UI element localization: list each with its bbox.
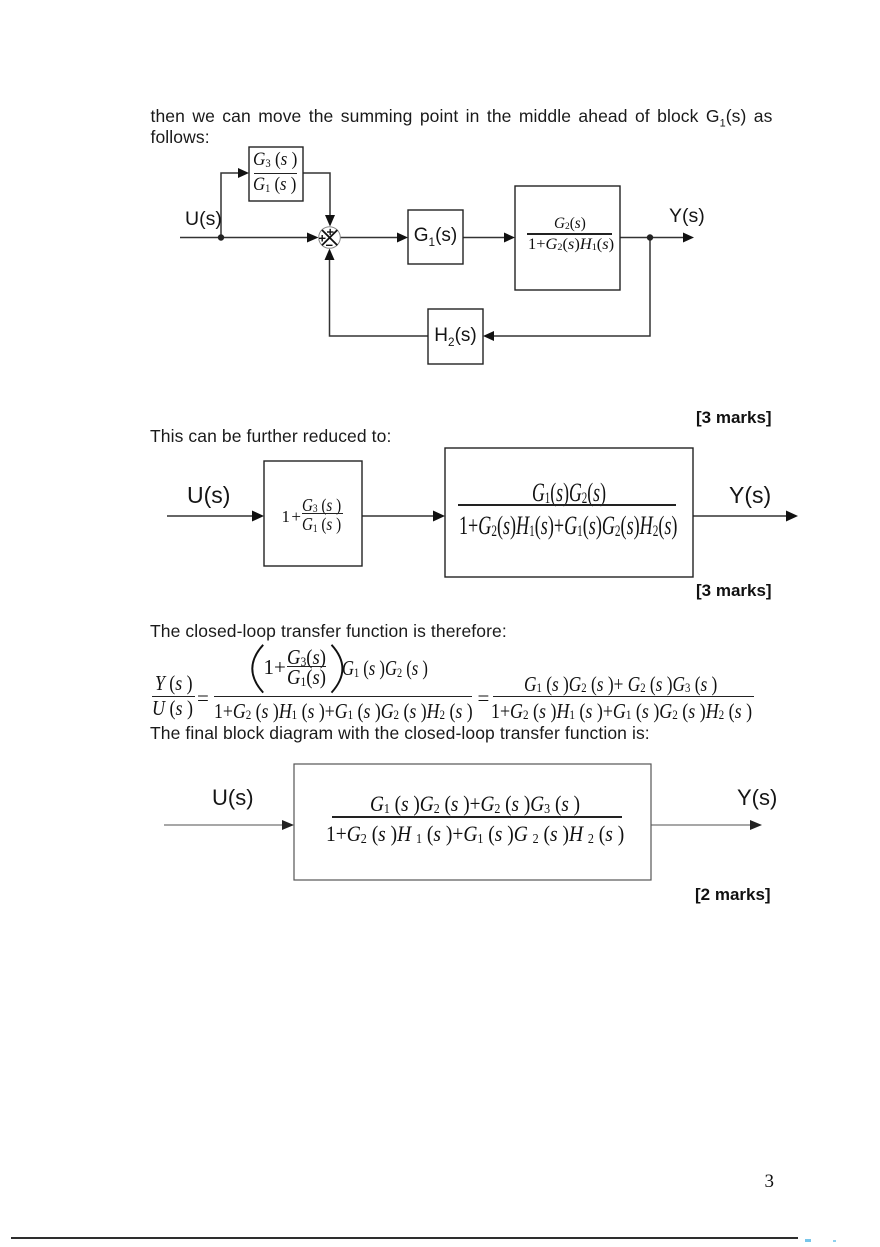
The final block diagram ... [150, 722, 650, 744]
final block fraction denominator [326, 821, 624, 847]
arrowhead into block1 [238, 168, 249, 178]
final block fraction bar [332, 816, 622, 818]
eq lhs bar [152, 696, 195, 698]
block3 fraction denominator [528, 236, 614, 254]
label Y(s) diagram1 [669, 205, 705, 228]
wire U(s) to block1 [167, 515, 255, 517]
summing plus top [327, 231, 334, 233]
node A dot [218, 234, 224, 240]
wire summing to G1 [341, 237, 400, 239]
page number 3 [765, 1171, 775, 1193]
block2 fraction numerator [532, 478, 606, 508]
wire branch up from node [221, 173, 240, 238]
final TF block box [294, 764, 651, 880]
label U(s) diagram2 [187, 482, 230, 509]
block G3/G1 fraction denominator [253, 174, 296, 196]
wire block1 to summing top [303, 173, 330, 217]
eq frac1 bar [214, 696, 473, 698]
paragraph line 1 [151, 105, 773, 135]
label Y(s) diagram2 [729, 482, 771, 509]
block G3/G1 box [249, 147, 303, 201]
wire feedback down [493, 238, 650, 337]
arrowhead into summing top [325, 215, 335, 227]
eq frac1 numerator G1(s)G2(s) [342, 656, 428, 681]
eq frac1 numerator 1+ [264, 655, 286, 680]
eq frac1 numerator parens (big) [250, 643, 345, 698]
wire H2 to summing bottom [330, 258, 429, 336]
eq lhs numerator Y(s) [155, 671, 192, 696]
arrowhead into H2 right [483, 331, 494, 341]
block H2 box [428, 309, 483, 364]
label Y(s) diagram3 [737, 785, 777, 811]
wire U(s) input [180, 237, 309, 239]
summing X diagonal 2 [322, 230, 337, 245]
summing plus left [319, 237, 326, 239]
This can be further reduced to: [150, 425, 391, 447]
wire U(s) to block [164, 824, 284, 826]
arrowhead into block2 [433, 511, 445, 522]
block1 fraction numerator [302, 495, 341, 516]
eq lhs denominator U(s) [152, 696, 193, 721]
eq equals 1 [197, 686, 209, 711]
paragraph line 2 [151, 126, 210, 148]
block G2 closed loop box [515, 186, 620, 290]
block3 fraction bar [527, 233, 612, 234]
final block fraction numerator [370, 791, 580, 817]
wire G1 to block3 [463, 237, 506, 239]
block3 fraction numerator [554, 215, 586, 233]
arrowhead into block1 [252, 511, 264, 522]
arrowhead into block3 [504, 233, 515, 243]
wire block1 to block2 [362, 515, 436, 517]
label U(s) diagram3 [212, 785, 254, 811]
arrowhead into block [282, 820, 294, 830]
summing junction circle [319, 227, 341, 249]
node B dot [647, 234, 653, 240]
footer blue specks [805, 1239, 811, 1242]
arrowhead into summing left [307, 233, 319, 243]
wire block3 to Y(s) [620, 237, 685, 239]
arrowhead Y(s) out [750, 820, 762, 830]
[3 marks] first [696, 408, 772, 428]
block1 fraction bar [302, 513, 343, 514]
eq equals 2 [478, 686, 490, 711]
eq frac1 inner denominator G1(s) [287, 665, 326, 690]
wire block to Y(s) [651, 824, 753, 826]
block G3/G1 fraction numerator [253, 149, 297, 171]
wire block2 to Y(s) [693, 515, 789, 517]
eq frac1 inner numerator G3(s) [287, 645, 326, 670]
block 1+G3/G1 box [264, 461, 362, 566]
arrowhead into summing bottom [325, 249, 335, 261]
eq frac2 bar [493, 696, 754, 698]
arrowhead Y(s) out [683, 233, 694, 243]
eq frac2 denominator [491, 699, 752, 724]
block2 fraction denominator [459, 511, 677, 541]
label U(s) diagram1 [185, 208, 222, 231]
eq frac1 inner bar [287, 666, 326, 668]
block G1 box [408, 210, 463, 264]
block G3/G1 fraction bar [254, 173, 298, 175]
arrowhead into G1 [397, 233, 408, 243]
block1 fraction denominator [302, 514, 341, 535]
eq frac1 denominator [214, 699, 473, 724]
[2 marks] [695, 885, 771, 905]
label H2(s) in block [428, 325, 483, 349]
block1 "1+" [282, 507, 302, 527]
arrowhead Y(s) out [786, 511, 798, 522]
The closed-loop transfer function is therefore: [150, 620, 507, 642]
[3 marks] second [696, 581, 772, 601]
label G1(s) in block [408, 225, 463, 249]
block2 fraction bar [458, 504, 677, 506]
summing minus bottom [326, 244, 333, 246]
summing X diagonal 1 [322, 230, 337, 245]
eq frac2 numerator [524, 672, 717, 697]
footer rule [11, 1237, 798, 1239]
block overall TF box [445, 448, 693, 577]
